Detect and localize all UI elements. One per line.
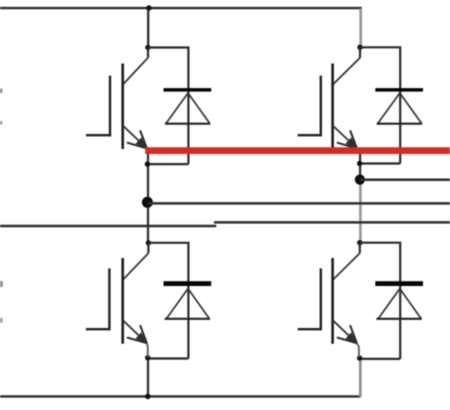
wire: Q4 emitter stub to junction: [357, 343, 359, 357]
diode D4 triangle side left: [378, 289, 400, 319]
wire: Q3 bottom connector: [148, 357, 189, 359]
transistor Q4 collector stub: [359, 243, 361, 254]
diode D2 triangle side right: [400, 93, 422, 124]
transistor Q1 gate bar: [109, 76, 111, 137]
diode D3 anode base line: [165, 318, 210, 320]
wire: right leg top (rail corner to Q2), gray: [359, 9, 362, 49]
wire: right leg mid upper (node to big dot): [359, 154, 361, 180]
wire: output line B from left big dot to right edge: [147, 202, 450, 205]
wire: left leg middle (Q1 emitter to Q3 collector): [147, 152, 149, 244]
transistor Q2 gate lead: [298, 134, 322, 136]
transistor Q3 body bar: [121, 258, 124, 344]
transistor Q1 gate lead: [86, 134, 111, 136]
transistor Q1 emitter arrow barb upper: [140, 130, 147, 148]
diode D1 triangle side left: [166, 93, 188, 124]
wire: Q3 top connector to D3 cathode leg: [148, 243, 188, 359]
node: Q4 collector junction: [357, 240, 362, 245]
node: Q4 emitter / D4 anode junction: [357, 355, 362, 360]
wire: right leg bottom (Q4 to bottom rail), gray: [359, 358, 360, 397]
transistor Q3 collector stub: [147, 243, 149, 253]
diode D4 anode base line: [376, 318, 421, 320]
transistor Q4 gate lead: [298, 328, 322, 330]
diode D4 cathode bar: [375, 281, 423, 286]
diode D2 cathode bar: [375, 88, 423, 92]
node: Q1 emitter / D1 anode junction: [145, 161, 150, 166]
diode D1 anode base line: [165, 123, 210, 125]
left edge mark: gate port stub g3: [0, 281, 3, 287]
transistor Q2 gate bar: [320, 76, 322, 137]
transistor Q1 emitter diagonal: [123, 126, 147, 148]
transistor Q4 emitter arrow barb lower: [337, 337, 357, 343]
transistor Q1 collector diagonal: [123, 58, 148, 84]
wire: thick red output bus: [145, 147, 450, 154]
transistor Q4 emitter diagonal: [333, 321, 357, 344]
transistor Q2 emitter diagonal: [333, 126, 357, 148]
node: Q1 collector junction: [145, 45, 150, 50]
wire: Q1 top connector to D1 cathode leg: [148, 48, 188, 165]
transistor Q3 emitter arrow head fill: [136, 332, 147, 343]
wire: output line A from right big dot to right edge: [360, 179, 450, 182]
wire: Q4 top connector to D4 cathode leg: [360, 243, 400, 359]
transistor Q1 emitter arrow barb lower: [127, 143, 147, 149]
transistor Q3 gate bar: [108, 268, 110, 330]
wire: Q3 emitter stub to junction: [146, 343, 149, 357]
wire: Q4 bottom connector: [360, 358, 401, 360]
left edge mark: gate port stub m3: [0, 318, 3, 323]
transistor Q4 body bar: [331, 258, 334, 344]
wire: left leg top (rail to Q1): [147, 8, 149, 48]
transistor Q4 emitter arrow barb upper: [350, 325, 357, 343]
transistor Q3 collector diagonal: [123, 253, 148, 279]
diode D2 triangle side left: [378, 93, 400, 124]
wire: Q1 bottom connector: [147, 163, 188, 165]
transistor Q3 gate lead: [86, 328, 111, 330]
transistor Q1 body bar: [121, 64, 124, 150]
transistor Q2 emitter arrow barb upper: [350, 130, 357, 148]
wire: line C left segment from left edge: [0, 225, 216, 227]
diode D2 anode base line: [377, 123, 422, 125]
transistor Q4 gate bar: [320, 268, 322, 330]
diode D1 triangle side right: [188, 93, 210, 124]
diode D1 cathode bar: [164, 88, 212, 92]
node: top rail / left leg junction: [146, 5, 151, 10]
diode D3 triangle side right: [188, 289, 209, 319]
left edge mark: gate port stub m1: [0, 121, 2, 125]
diode D3 cathode bar: [164, 281, 212, 286]
bottom DC rail: [0, 395, 361, 397]
wire: right leg mid lower (big dot to Q4), gray: [359, 180, 362, 244]
transistor Q1 collector stub: [147, 48, 149, 58]
transistor Q2 body bar: [331, 64, 334, 150]
node: right leg output junction (big dot): [355, 175, 365, 185]
node: bottom rail / left leg junction: [145, 394, 151, 400]
transistor Q4 emitter arrow head fill: [346, 332, 357, 343]
left edge mark: gate port stub g1: [0, 89, 2, 94]
transistor Q2 collector stub: [359, 47, 361, 58]
node: Q2 emitter / D2 anode junction: [357, 161, 362, 166]
node: Q2 collector junction: [357, 45, 362, 50]
transistor Q4 collector diagonal: [333, 253, 360, 279]
wire: Q2 top connector to D2 cathode leg: [360, 47, 400, 163]
transistor Q3 emitter arrow barb lower: [127, 337, 147, 343]
wire: left leg bottom (Q3 emitter to bottom rail): [147, 358, 149, 397]
top DC rail: [0, 7, 362, 9]
transistor Q2 emitter arrow barb lower: [337, 143, 357, 149]
transistor Q2 emitter arrow head fill: [346, 137, 357, 148]
transistor Q3 emitter diagonal: [123, 321, 147, 344]
node: Q3 emitter / D3 anode junction: [145, 355, 150, 360]
diode D4 triangle side right: [400, 289, 421, 319]
node: Q3 collector junction: [146, 240, 151, 245]
diode D3 triangle side left: [166, 289, 188, 319]
transistor Q3 emitter arrow barb upper: [140, 325, 147, 343]
node: left leg output junction (big dot): [142, 197, 153, 208]
wire: line C right segment to right edge (jogged): [214, 221, 450, 224]
wire: Q2 bottom connector: [360, 162, 401, 164]
transistor Q2 collector diagonal: [333, 58, 360, 84]
transistor Q1 emitter arrow head fill: [136, 137, 147, 148]
